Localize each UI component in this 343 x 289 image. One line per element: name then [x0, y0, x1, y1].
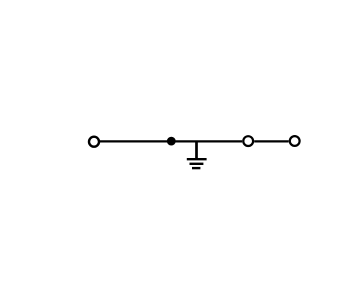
- terminal T3 (right open circle): [290, 136, 300, 146]
- wire (ground tap to T2): [197, 140, 243, 142]
- ground: [187, 143, 207, 169]
- wire (junction to ground tap): [171, 140, 196, 142]
- junction node A: [167, 137, 176, 146]
- wire (T1 to junction): [100, 140, 171, 142]
- terminal T2 (middle open circle): [243, 136, 253, 146]
- wire (T2 to T3): [254, 140, 289, 142]
- terminal T1 (left open circle): [89, 137, 99, 147]
